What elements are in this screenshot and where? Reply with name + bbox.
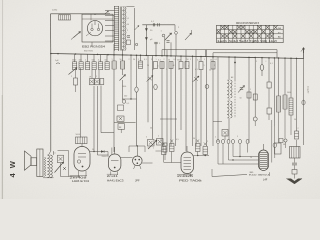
- svg-text:HA41 EbC3: HA41 EbC3: [107, 179, 124, 183]
- svg-text:1: 1: [160, 139, 161, 141]
- svg-text:2: 2: [164, 59, 165, 61]
- svg-text:50: 50: [209, 70, 211, 72]
- svg-text:20: 20: [250, 157, 252, 159]
- svg-text:500: 500: [124, 95, 127, 97]
- svg-text:50: 50: [133, 59, 135, 61]
- svg-text:1: 1: [153, 147, 154, 149]
- svg-text:0,1: 0,1: [195, 69, 198, 71]
- svg-text:4 W: 4 W: [8, 160, 17, 178]
- svg-text:50: 50: [92, 149, 94, 151]
- svg-text:0,1: 0,1: [197, 60, 200, 62]
- svg-text:1: 1: [215, 136, 216, 138]
- svg-text:0,1: 0,1: [98, 60, 101, 62]
- svg-text:5: 5: [146, 136, 147, 138]
- svg-text:2: 2: [71, 76, 72, 78]
- svg-text:KW: KW: [199, 181, 202, 183]
- svg-text:2m408: 2m408: [70, 177, 89, 179]
- svg-text:EB2 RGN354: EB2 RGN354: [82, 45, 106, 49]
- svg-text:1: 1: [156, 59, 157, 61]
- svg-text:L4F: L4F: [263, 179, 268, 182]
- svg-text:0,1: 0,1: [127, 18, 130, 20]
- svg-text:5000: 5000: [177, 60, 181, 62]
- svg-text:1: 1: [112, 59, 113, 61]
- svg-text:0,5: 0,5: [53, 153, 56, 155]
- svg-text:50: 50: [150, 128, 152, 130]
- svg-text:5000: 5000: [287, 92, 291, 94]
- svg-text:1: 1: [96, 76, 97, 78]
- svg-text:0,5: 0,5: [176, 139, 179, 141]
- svg-text:HA6 E´D4: HA6 E´D4: [72, 179, 90, 183]
- svg-text:50: 50: [210, 60, 212, 62]
- svg-text:2: 2: [158, 136, 159, 138]
- svg-text:1: 1: [204, 65, 205, 67]
- svg-text:100: 100: [79, 60, 82, 62]
- svg-text:50: 50: [127, 24, 129, 26]
- svg-text:50: 50: [147, 65, 149, 67]
- svg-text:220Ω: 220Ω: [52, 9, 58, 12]
- svg-text:50: 50: [193, 138, 195, 140]
- svg-text:0,1: 0,1: [158, 60, 161, 62]
- svg-text:500: 500: [92, 60, 95, 62]
- svg-text:0,5: 0,5: [174, 59, 177, 61]
- svg-text:1: 1: [166, 69, 167, 71]
- svg-text:2: 2: [129, 59, 130, 61]
- svg-text:50: 50: [187, 59, 189, 61]
- svg-text:5000: 5000: [72, 60, 76, 62]
- svg-text:50: 50: [240, 98, 242, 100]
- svg-text:1: 1: [190, 59, 191, 61]
- svg-text:20000: 20000: [102, 156, 107, 158]
- svg-text:2m425: 2m425: [177, 176, 195, 178]
- svg-text:EB2 RGN: EB2 RGN: [84, 50, 93, 52]
- svg-text:50: 50: [294, 119, 296, 121]
- svg-text:1: 1: [250, 89, 251, 91]
- svg-text:1: 1: [138, 59, 139, 61]
- svg-text:1a2b 3c4d 5e6f 7g8h 9i0j 1k2l: 1a2b 3c4d 5e6f 7g8h 9i0j 1k2l: [217, 40, 277, 43]
- svg-text:2m41: 2m41: [107, 176, 119, 178]
- svg-text:50: 50: [105, 60, 107, 62]
- svg-text:2: 2: [298, 128, 299, 130]
- svg-text:50: 50: [168, 60, 170, 62]
- svg-text:Lang 50: Lang 50: [307, 86, 309, 94]
- svg-text:0,1: 0,1: [270, 63, 273, 65]
- svg-text:2: 2: [207, 141, 208, 143]
- svg-text:5: 5: [151, 59, 152, 61]
- svg-text:50: 50: [178, 69, 180, 71]
- svg-text:DRUCKTASTENSATZ: DRUCKTASTENSATZ: [236, 22, 260, 25]
- svg-text:2: 2: [85, 60, 86, 62]
- svg-text:K10 3692J: K10 3692J: [249, 174, 269, 176]
- svg-text:0,5: 0,5: [127, 103, 130, 105]
- svg-text:50: 50: [225, 135, 227, 137]
- svg-text:5: 5: [237, 136, 238, 138]
- svg-text:0,1: 0,1: [144, 59, 147, 61]
- svg-text:5000: 5000: [122, 86, 126, 88]
- svg-text:5: 5: [204, 59, 205, 61]
- svg-text:2: 2: [127, 30, 128, 32]
- svg-text:50: 50: [120, 59, 122, 61]
- svg-text:0,1: 0,1: [215, 59, 218, 61]
- svg-text:JPF: JPF: [135, 179, 140, 183]
